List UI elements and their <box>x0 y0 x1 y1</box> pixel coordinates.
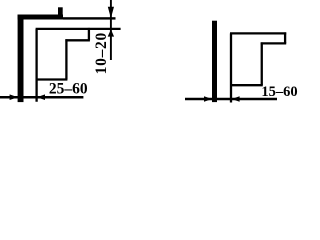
wall top bar <box>18 15 63 20</box>
horizontal dimension line <box>185 98 277 101</box>
horizontal dimension line <box>0 96 83 99</box>
profile bottom edge <box>36 78 68 80</box>
svg-text:25–60: 25–60 <box>49 81 88 98</box>
profile top edge + extension <box>36 28 121 30</box>
left arrow <box>10 94 18 100</box>
profile step line <box>261 42 286 44</box>
profile step line <box>65 39 90 41</box>
wall bar <box>212 21 217 102</box>
left arrow <box>204 96 212 102</box>
up arrow <box>108 29 114 36</box>
stub at end of top bar <box>58 7 63 14</box>
right arrow <box>232 96 240 102</box>
right arrow <box>37 94 45 100</box>
profile right edge <box>88 28 90 40</box>
profile bottom edge <box>230 84 263 86</box>
extension line from top bar <box>63 17 116 19</box>
profile middle vertical <box>261 42 263 85</box>
svg-text:15–60: 15–60 <box>261 84 297 100</box>
svg-text:10–20: 10–20 <box>93 32 110 74</box>
profile inner vertical <box>65 39 67 79</box>
wall vertical bar <box>18 15 24 103</box>
profile left edge + extension <box>35 29 37 102</box>
profile left edge + extension <box>230 33 232 102</box>
profile right edge <box>284 32 286 43</box>
vertical dimension line <box>110 0 112 60</box>
down arrow <box>108 7 114 18</box>
profile top edge <box>230 32 286 34</box>
